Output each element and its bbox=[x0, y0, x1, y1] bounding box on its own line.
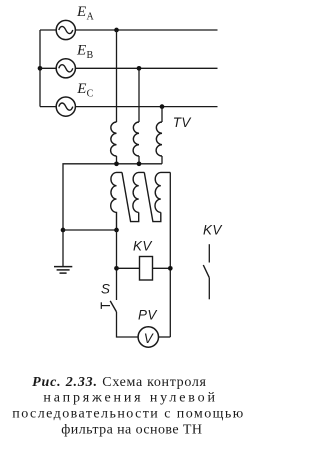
svg-text:S: S bbox=[101, 281, 110, 296]
svg-text:EA: EA bbox=[76, 4, 94, 22]
node A-tap bbox=[114, 28, 119, 33]
wire ground to winding1 bottom bbox=[63, 229, 117, 231]
wire primary 1 stub bbox=[116, 156, 118, 164]
contact KV top bbox=[208, 244, 210, 262]
node KV right bbox=[168, 266, 173, 271]
wire primary 2 stub bbox=[138, 156, 140, 164]
node winding1 bottom bbox=[114, 228, 119, 233]
svg-text:KV: KV bbox=[133, 238, 152, 253]
svg-text:EC: EC bbox=[76, 81, 93, 100]
transformer TV primary winding 3 bbox=[156, 122, 162, 156]
source EB bbox=[56, 59, 75, 78]
wire left rail upper bbox=[116, 230, 118, 300]
contact KV bottom bbox=[208, 278, 210, 300]
switch S blade bbox=[110, 301, 116, 312]
wire phase C left bbox=[40, 106, 56, 108]
svg-text:напряжения нулевой: напряжения нулевой bbox=[43, 391, 215, 406]
svg-text:Схема контроля: Схема контроля bbox=[102, 375, 206, 390]
wire KV left bbox=[117, 267, 140, 269]
wire right rail bbox=[169, 172, 171, 337]
node KV left bbox=[114, 266, 119, 271]
wire primary 3 stub bbox=[161, 156, 163, 164]
wire phase B right bbox=[75, 67, 217, 69]
node neutral-w2 bbox=[137, 161, 142, 166]
switch S actuator bbox=[100, 302, 102, 309]
wire phase B left bbox=[40, 67, 56, 69]
wire phase C right bbox=[75, 106, 217, 108]
wire left bus vertical bbox=[39, 30, 41, 107]
wire ground drop bbox=[62, 230, 64, 266]
wire KV right bbox=[153, 267, 171, 269]
relay KV coil bbox=[140, 257, 153, 281]
svg-text:PV: PV bbox=[138, 308, 157, 323]
ground bbox=[54, 267, 72, 274]
svg-text:V: V bbox=[144, 331, 154, 346]
wire V to right rail bbox=[159, 336, 171, 338]
svg-text:KV: KV bbox=[203, 222, 222, 237]
node bus-B junction bbox=[38, 66, 43, 71]
wire drop C to TV bbox=[161, 107, 163, 122]
wire secondary diagonal 2-3 bbox=[144, 172, 161, 221]
wire drop B to TV bbox=[138, 68, 140, 122]
contact KV blade bbox=[203, 265, 209, 278]
svg-text:Рис. 2.33.: Рис. 2.33. bbox=[32, 375, 97, 390]
wire left rail lower bbox=[117, 312, 139, 337]
source EA bbox=[56, 20, 75, 39]
source EC bbox=[56, 97, 75, 116]
svg-text:TV: TV bbox=[173, 115, 192, 130]
transformer TV secondary winding 1 bbox=[111, 172, 122, 230]
svg-text:последовательности с помощью: последовательности с помощью bbox=[12, 407, 243, 422]
wire secondary diagonal 1-2 bbox=[122, 172, 139, 221]
voltmeter PV bbox=[138, 327, 158, 347]
transformer TV secondary winding 3 bbox=[155, 172, 170, 212]
transformer TV secondary winding 2 bbox=[133, 172, 144, 212]
transformer TV primary winding 2 bbox=[133, 122, 139, 156]
svg-text:фильтра на основе ТН: фильтра на основе ТН bbox=[61, 422, 202, 437]
wire drop A to TV bbox=[116, 30, 118, 122]
node B-tap bbox=[137, 66, 142, 71]
svg-text:EB: EB bbox=[76, 43, 93, 62]
node C-tap bbox=[160, 104, 165, 109]
node ground tap bbox=[61, 228, 66, 233]
wire phase A left bbox=[40, 29, 56, 31]
wire phase A right bbox=[75, 29, 217, 31]
node neutral-w1 bbox=[114, 161, 119, 166]
transformer TV primary winding 1 bbox=[111, 122, 117, 156]
wire primary neutral bbox=[63, 164, 162, 230]
